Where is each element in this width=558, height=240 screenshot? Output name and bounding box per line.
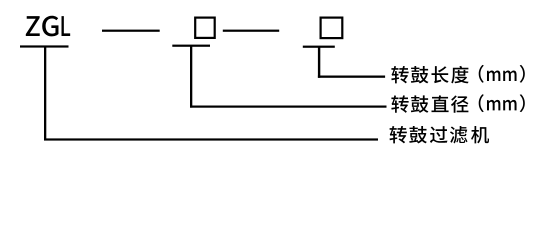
callout line from first box to drum diameter label [190, 45, 192, 108]
first placeholder box (drum diameter) [195, 18, 215, 38]
dash between ZGL and first box [102, 30, 160, 32]
callout line from second box to drum length label [318, 46, 320, 78]
model code ZGL [26, 16, 70, 37]
callout line from ZGL to drum filter label [44, 46, 46, 141]
T-bar below first box [172, 45, 210, 47]
label: drum filter machine [390, 126, 490, 143]
second placeholder box (drum length) [321, 18, 343, 38]
label: drum diameter (mm) [391, 94, 525, 113]
label: drum length (mm) [391, 65, 525, 84]
underline below ZGL [20, 45, 69, 47]
dash between boxes [223, 30, 279, 32]
T-bar below second box [303, 46, 335, 48]
